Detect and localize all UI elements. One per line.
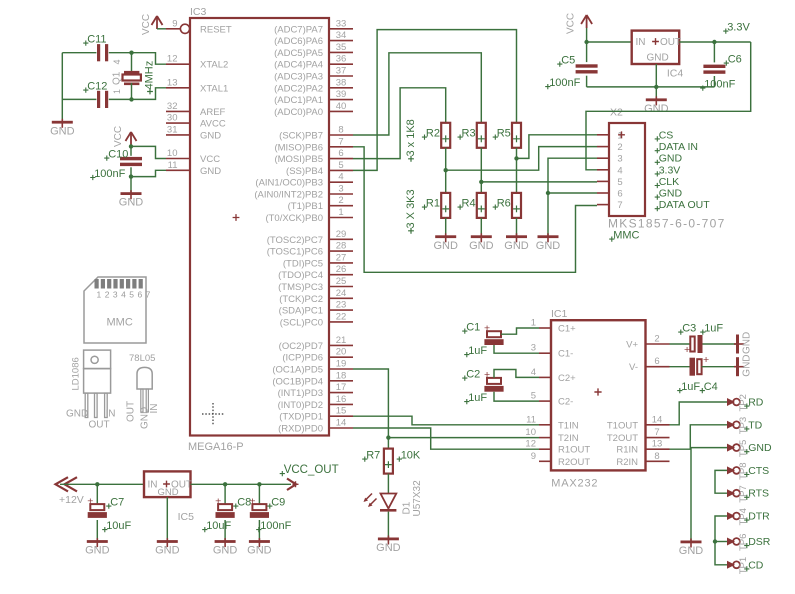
svg-text:GND: GND xyxy=(742,354,753,376)
svg-text:(TDO)PC4: (TDO)PC4 xyxy=(278,270,323,281)
svg-text:V+: V+ xyxy=(626,340,638,351)
IC3 pin 25 (TMS)PC3 xyxy=(278,276,353,293)
pin number 1 xyxy=(112,89,122,94)
svg-text:DATA IN: DATA IN xyxy=(659,141,698,153)
svg-text:29: 29 xyxy=(336,229,347,240)
capacitor C3 xyxy=(684,335,703,356)
IC3 pin 35 (ADC5)PA5 xyxy=(274,42,353,59)
IC3 pin 4 (AIN1/OC0)PB3 xyxy=(255,172,353,189)
svg-text:78L05: 78L05 xyxy=(129,353,155,364)
svg-text:CTS: CTS xyxy=(748,465,769,477)
svg-text:(AIN1/OC0)PB3: (AIN1/OC0)PB3 xyxy=(255,178,323,189)
svg-text:33: 33 xyxy=(336,18,347,29)
svg-text:11: 11 xyxy=(168,160,178,171)
label TP1 xyxy=(738,557,749,574)
svg-text:GND: GND xyxy=(748,442,772,454)
wire node to C10 xyxy=(130,146,132,155)
IC3 pin 34 (ADC6)PA6 xyxy=(274,30,353,47)
svg-text:IN: IN xyxy=(106,409,116,420)
net label RTS xyxy=(744,488,769,500)
svg-text:DSR: DSR xyxy=(748,536,771,548)
78L05 TO-92 drawing xyxy=(137,367,152,412)
net label GND xyxy=(744,442,772,454)
svg-text:AREF: AREF xyxy=(200,107,226,118)
svg-text:(ADC0)PA0: (ADC0)PA0 xyxy=(274,107,323,118)
svg-text:C2+: C2+ xyxy=(558,373,576,384)
label R1 xyxy=(422,198,440,210)
wire RXD to R1OUT xyxy=(353,428,539,449)
node divider R2/R1 xyxy=(444,168,448,172)
svg-text:C10: C10 xyxy=(108,149,128,161)
wire crystal top lead xyxy=(131,53,133,71)
svg-text:21: 21 xyxy=(336,335,347,346)
X2 pin 7 xyxy=(597,200,623,211)
svg-text:8: 8 xyxy=(654,451,659,462)
wire C9 to gnd xyxy=(258,520,260,540)
svg-text:22: 22 xyxy=(336,311,347,322)
label X2 xyxy=(610,107,623,119)
IC3 pin 10 VCC xyxy=(166,148,220,165)
svg-text:VCC: VCC xyxy=(200,154,220,165)
node C8 tap xyxy=(223,482,227,486)
wire VCC to rail xyxy=(586,28,588,42)
resistor R5 xyxy=(512,123,521,148)
node divider R5/R6 xyxy=(514,156,518,160)
ground C9 GND xyxy=(247,538,272,557)
svg-text:(T0/XCK)PB0: (T0/XCK)PB0 xyxy=(265,213,323,224)
svg-text:(OC1A)PD5: (OC1A)PD5 xyxy=(272,365,323,376)
svg-text:IC1: IC1 xyxy=(551,308,568,320)
svg-text:5: 5 xyxy=(338,160,343,171)
label R2 xyxy=(422,128,440,140)
svg-text:12: 12 xyxy=(167,54,178,65)
svg-text:CLK: CLK xyxy=(659,176,679,188)
net label DATA IN xyxy=(655,141,698,153)
IC5 pin label GND xyxy=(158,487,179,498)
svg-text:(INT1)PD3: (INT1)PD3 xyxy=(278,388,323,399)
label MMC (card) xyxy=(107,317,133,329)
svg-text:8: 8 xyxy=(338,125,343,136)
svg-text:(TCK)PC2: (TCK)PC2 xyxy=(279,294,323,305)
label R3 xyxy=(458,128,476,140)
label LD1086 xyxy=(71,357,82,390)
IC4 pin label OUT xyxy=(660,37,681,48)
svg-text:GND: GND xyxy=(200,130,221,141)
regulator IC4 body xyxy=(632,31,680,64)
IC3 pin 18 (OC1B)PD4 xyxy=(272,370,353,387)
svg-text:GND: GND xyxy=(66,409,88,420)
wire C4 to gnd xyxy=(702,366,736,368)
svg-text:T2IN: T2IN xyxy=(558,433,579,444)
IC1 pin 2 V+ xyxy=(626,334,669,351)
resistor R4 xyxy=(477,193,486,218)
svg-text:(T1)PB1: (T1)PB1 xyxy=(288,201,323,212)
wire TD to R1IN xyxy=(670,425,728,449)
svg-text:14: 14 xyxy=(336,418,347,429)
svg-text:34: 34 xyxy=(336,30,347,41)
IC3 pin 13 XTAL1 xyxy=(166,77,228,94)
IC3 pin 32 AREF xyxy=(166,101,226,118)
svg-text:(MISO)PB6: (MISO)PB6 xyxy=(274,142,323,153)
IC3 pin 8 (SCK)PB7 xyxy=(279,125,353,142)
svg-text:3 X 3K3: 3 X 3K3 xyxy=(405,189,417,228)
wire IC4 OUT to corner xyxy=(679,41,751,43)
power VCC (reset) xyxy=(141,14,163,35)
net label CLK xyxy=(655,176,679,188)
svg-text:TD: TD xyxy=(748,419,762,431)
X2 pin 6 xyxy=(597,189,623,200)
ground crystal GND xyxy=(50,119,75,138)
test point TP7 xyxy=(727,489,740,497)
IC5 origin cross xyxy=(163,481,170,488)
IC3 pin 19 (OC1A)PD5 xyxy=(272,359,353,376)
svg-text:R1IN: R1IN xyxy=(616,445,638,456)
+12V input arrow xyxy=(56,477,78,491)
label IC1 xyxy=(551,308,568,320)
svg-text:(SCL)PC0: (SCL)PC0 xyxy=(280,317,323,328)
net label DTR xyxy=(744,511,770,523)
svg-text:17: 17 xyxy=(336,382,347,393)
label TP4 xyxy=(738,508,749,525)
wire pin6 to C4 xyxy=(670,366,690,368)
svg-text:3: 3 xyxy=(617,154,622,165)
svg-text:15: 15 xyxy=(336,406,347,417)
svg-text:(OC1B)PD4: (OC1B)PD4 xyxy=(272,376,323,387)
wire LED to gnd xyxy=(387,512,389,538)
wire pin11 to C10 xyxy=(131,170,166,176)
LD1086 pin label IN xyxy=(106,409,116,420)
svg-text:T2OUT: T2OUT xyxy=(607,433,638,444)
X2 origin cross xyxy=(618,131,625,138)
label MMC (green) xyxy=(609,230,639,242)
IC3 pin 5 (SS)PB4 xyxy=(286,160,353,177)
svg-text:GND: GND xyxy=(155,545,180,557)
svg-text:Q1: Q1 xyxy=(112,71,123,85)
value 4MHz xyxy=(144,61,156,95)
IC1 pin 9 R2OUT xyxy=(531,451,591,468)
cursor crosshair xyxy=(202,403,224,425)
value 10uF (C8) xyxy=(202,520,231,532)
wire CS node to X2 pin1 xyxy=(517,135,598,159)
svg-text:(TOSC2)PC7: (TOSC2)PC7 xyxy=(267,235,323,246)
svg-text:1uF: 1uF xyxy=(681,381,700,393)
IC3 pin 28 (TOSC1)PC6 xyxy=(267,241,353,258)
svg-text:(ADC5)PA5: (ADC5)PA5 xyxy=(274,48,323,59)
svg-text:D1: D1 xyxy=(402,501,413,514)
wire R3 to R4 xyxy=(480,148,482,193)
IC3 pin 40 (ADC0)PA0 xyxy=(274,101,353,118)
svg-text:MMC: MMC xyxy=(107,317,133,329)
svg-text:+12V: +12V xyxy=(59,494,84,506)
svg-text:32: 32 xyxy=(167,101,178,112)
wire T1OUT to RD xyxy=(670,402,728,425)
svg-text:MKS1857-6-0-707: MKS1857-6-0-707 xyxy=(608,217,726,231)
svg-text:MAX232: MAX232 xyxy=(551,478,598,490)
wire R7 to LED xyxy=(387,474,389,494)
svg-text:3.3V: 3.3V xyxy=(727,22,750,34)
X2 pin 2 xyxy=(597,142,623,153)
IC3 pin 1 (T0/XCK)PB0 xyxy=(265,207,353,224)
ground R1 GND xyxy=(433,233,458,252)
svg-text:13: 13 xyxy=(652,439,663,450)
svg-text:VCC: VCC xyxy=(566,13,577,34)
IC4 origin cross xyxy=(652,38,659,45)
node T2IN branch xyxy=(386,435,390,439)
value 100nF (C9) xyxy=(256,520,291,532)
IC3 pin 16 (INT0)PD2 xyxy=(278,394,353,411)
net label VCC_OUT xyxy=(280,464,339,476)
IC3 pin 33 (ADC7)PA7 xyxy=(274,18,353,35)
svg-text:10uF: 10uF xyxy=(206,520,231,532)
svg-text:IN: IN xyxy=(149,404,160,414)
svg-text:20: 20 xyxy=(336,347,347,358)
node VCC branch xyxy=(129,144,133,148)
test point TP3 xyxy=(727,421,740,429)
wire C10 bottom xyxy=(130,167,132,192)
svg-text:35: 35 xyxy=(336,42,347,53)
svg-text:R6: R6 xyxy=(497,198,511,210)
label TP8 xyxy=(738,462,749,479)
svg-text:(ICP)PD6: (ICP)PD6 xyxy=(282,353,323,364)
wire R4 to ground xyxy=(480,218,482,235)
IC3 pin 14 (RXD)PD0 xyxy=(278,418,353,435)
LD1086 pin label OUT xyxy=(89,420,110,431)
wire IC4 GND pin xyxy=(655,64,657,98)
IC3 pin 29 (TOSC2)PC7 xyxy=(267,229,353,246)
X2 pin 3 xyxy=(597,154,623,165)
IC3 pin 36 (ADC4)PA4 xyxy=(274,54,353,71)
IC3 pin 11 GND xyxy=(166,160,221,177)
capacitor C11 xyxy=(97,44,108,61)
IC3 pin 6 (MOSI)PB5 xyxy=(274,148,353,165)
svg-text:+: + xyxy=(703,354,709,366)
net label CD xyxy=(744,559,764,571)
svg-text:C5: C5 xyxy=(561,55,575,67)
svg-text:13: 13 xyxy=(167,77,178,88)
regulator IC5 body xyxy=(144,471,191,497)
svg-text:3: 3 xyxy=(531,343,536,354)
svg-text:1uF: 1uF xyxy=(468,345,487,357)
svg-text:16: 16 xyxy=(336,394,347,405)
ground IC4 GND xyxy=(644,96,669,115)
svg-text:(ADC3)PA3: (ADC3)PA3 xyxy=(274,72,323,83)
svg-text:(AIN0/INT2)PB2: (AIN0/INT2)PB2 xyxy=(254,190,323,201)
svg-text:(ADC2)PA2: (ADC2)PA2 xyxy=(274,83,323,94)
svg-text:40: 40 xyxy=(336,101,347,112)
svg-text:(ADC1)PA1: (ADC1)PA1 xyxy=(274,95,323,106)
IC1 pin 5 C2- xyxy=(531,391,574,408)
test point TP6 xyxy=(727,538,740,546)
IC3 pin 38 (ADC2)PA2 xyxy=(274,77,353,94)
svg-text:30: 30 xyxy=(167,113,178,124)
svg-text:R5: R5 xyxy=(497,128,511,140)
wire branch to T2IN xyxy=(388,437,539,439)
wire C1 top to pin1 xyxy=(501,328,539,334)
ground R4 GND xyxy=(469,233,494,252)
wire C7 top lead xyxy=(96,484,98,504)
svg-text:C4: C4 xyxy=(704,381,718,393)
node X2 gnd join xyxy=(546,191,550,195)
wire X2 GND pins xyxy=(548,158,597,235)
ground X2 GND xyxy=(536,233,561,252)
test point TP4 xyxy=(727,512,740,520)
svg-text:IN: IN xyxy=(636,37,646,48)
svg-text:7: 7 xyxy=(617,200,622,211)
78L05 pin label GND xyxy=(140,407,151,429)
svg-text:36: 36 xyxy=(336,54,347,65)
svg-text:5: 5 xyxy=(617,177,622,188)
IC5 pin label OUT xyxy=(171,480,192,491)
wire C12 right to node xyxy=(109,98,132,100)
wire C9 top lead xyxy=(258,484,260,504)
resistor R2 xyxy=(441,123,450,148)
svg-text:AVCC: AVCC xyxy=(200,119,226,130)
svg-text:(TMS)PC3: (TMS)PC3 xyxy=(278,282,323,293)
svg-text:+: + xyxy=(87,495,93,507)
svg-text:GND: GND xyxy=(158,487,179,498)
label IC4 xyxy=(667,67,684,79)
ground IC5 GND xyxy=(155,538,180,557)
value 1uF (C2) xyxy=(464,392,487,404)
svg-text:(ADC7)PA7: (ADC7)PA7 xyxy=(274,24,323,35)
pin number 4 xyxy=(112,59,122,64)
svg-text:9: 9 xyxy=(531,451,536,462)
svg-text:27: 27 xyxy=(336,252,347,263)
wire R2 to R1 xyxy=(445,148,447,193)
ground R6 GND xyxy=(504,233,529,252)
svg-text:LD1086: LD1086 xyxy=(71,357,82,390)
svg-text:C7: C7 xyxy=(110,497,124,509)
svg-text:3.3V: 3.3V xyxy=(659,164,681,176)
78L05 pin label OUT xyxy=(126,401,137,422)
label R7 xyxy=(362,450,380,462)
value 100nF (C10) xyxy=(90,168,125,180)
value 1uF (C4) xyxy=(677,381,700,393)
svg-text:R2: R2 xyxy=(426,128,440,140)
svg-text:GND: GND xyxy=(119,197,144,209)
svg-text:GND: GND xyxy=(50,125,75,137)
wire CLK node to X2 pin5 xyxy=(481,181,597,183)
label R6 xyxy=(493,198,511,210)
net label RD xyxy=(744,397,764,409)
svg-text:28: 28 xyxy=(336,241,347,252)
svg-text:GND: GND xyxy=(659,188,683,200)
value MKS1857-6-0-707 xyxy=(608,217,726,231)
wire TXD to T1IN xyxy=(353,416,539,425)
wire C6 bottom lead xyxy=(713,76,715,87)
ground C7 GND xyxy=(85,538,110,557)
svg-text:+: + xyxy=(484,369,490,381)
svg-text:4MHz: 4MHz xyxy=(144,61,156,90)
svg-text:C12: C12 xyxy=(87,81,107,93)
svg-text:GND: GND xyxy=(433,240,458,252)
svg-text:6: 6 xyxy=(617,189,622,200)
svg-text:19: 19 xyxy=(336,359,347,370)
IC1 pin 7 T2OUT xyxy=(607,427,670,444)
node pin11 join xyxy=(129,174,133,178)
IC3 pin 3 (AIN0/INT2)PB2 xyxy=(254,184,353,201)
node C7 tap xyxy=(95,482,99,486)
wire gnd rail C5-C6 xyxy=(587,86,715,88)
wire VCC stem to node xyxy=(130,145,132,146)
IC3 pin 7 (MISO)PB6 xyxy=(274,136,353,153)
svg-text:R7: R7 xyxy=(366,450,380,462)
svg-text:6: 6 xyxy=(654,356,659,367)
svg-text:(ADC6)PA6: (ADC6)PA6 xyxy=(274,36,323,47)
wire VCC to pin10 xyxy=(131,146,166,158)
X2 pin 4 xyxy=(597,165,623,176)
wire C5 bottom lead xyxy=(586,76,588,87)
ground C3 GND (rotated) xyxy=(734,332,753,354)
svg-text:(ADC4)PA4: (ADC4)PA4 xyxy=(274,60,323,71)
capacitor C7 xyxy=(87,495,107,517)
IC3 pin 30 AVCC xyxy=(166,113,226,130)
svg-text:6: 6 xyxy=(338,148,343,159)
value MEGA16-P xyxy=(188,441,244,453)
node XTAL1 junction xyxy=(129,97,133,101)
capacitor C8 xyxy=(215,495,235,517)
wire X2 GND pin6 xyxy=(548,192,597,194)
wire C1 bottom to pin3 xyxy=(494,345,539,353)
svg-text:DATA OUT: DATA OUT xyxy=(659,199,711,211)
svg-text:4: 4 xyxy=(112,59,122,64)
capacitor C6 xyxy=(703,65,725,74)
node C9 tap xyxy=(257,482,261,486)
svg-text:U57X32: U57X32 xyxy=(412,480,423,517)
IC4 pin label IN xyxy=(636,37,646,48)
wire PD5 down xyxy=(353,369,388,449)
svg-text:100nF: 100nF xyxy=(704,79,735,91)
svg-text:GND: GND xyxy=(247,545,272,557)
wire DTR-DSR-CD tie xyxy=(715,516,727,565)
IC3 pin 15 (TXD)PD1 xyxy=(279,406,353,423)
wire DATA IN node to X2 pin2 xyxy=(446,147,597,171)
crystal Q1 xyxy=(123,71,141,85)
svg-text:4: 4 xyxy=(338,172,343,183)
svg-text:C1: C1 xyxy=(466,322,480,334)
connector X2 body xyxy=(609,123,645,216)
resistor R6 xyxy=(512,193,521,218)
svg-text:10: 10 xyxy=(525,427,536,438)
svg-text:RTS: RTS xyxy=(748,488,769,500)
resistor R7 xyxy=(384,449,393,474)
svg-text:R3: R3 xyxy=(462,128,476,140)
svg-text:+: + xyxy=(249,495,255,507)
svg-text:37: 37 xyxy=(336,66,347,77)
wire C12 left to rail xyxy=(62,98,96,100)
label C11 xyxy=(83,34,106,46)
ground C4 GND (rotated) xyxy=(734,354,753,376)
svg-text:MMC: MMC xyxy=(613,230,639,242)
svg-text:10: 10 xyxy=(167,148,178,159)
label C1 xyxy=(462,322,480,334)
IC1 pin 10 T2IN xyxy=(525,427,578,444)
net label TD xyxy=(744,419,762,431)
svg-text:GND: GND xyxy=(644,103,669,115)
wire MOSI to R2 top xyxy=(353,88,446,159)
svg-text:GND: GND xyxy=(200,166,221,177)
svg-text:+: + xyxy=(215,495,221,507)
net label CS xyxy=(655,129,674,141)
node VCC rail xyxy=(584,40,588,44)
LED D1 xyxy=(364,494,397,512)
svg-text:C11: C11 xyxy=(87,34,106,46)
label C8 xyxy=(233,497,251,509)
IC1 pin 1 C1+ xyxy=(531,318,576,335)
svg-text:OUT: OUT xyxy=(89,420,110,431)
power VCC (C10) xyxy=(113,126,137,147)
IC1 pin 11 T1IN xyxy=(526,414,579,431)
